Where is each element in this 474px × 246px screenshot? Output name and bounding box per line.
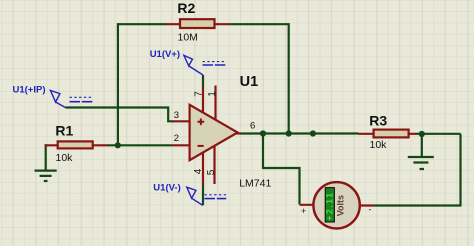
svg-text:R1: R1 bbox=[55, 122, 73, 138]
svg-text:+2.11: +2.11 bbox=[325, 192, 335, 221]
svg-text:3: 3 bbox=[174, 110, 179, 121]
svg-text:6: 6 bbox=[250, 121, 255, 132]
svg-text:7: 7 bbox=[193, 91, 204, 97]
svg-text:10k: 10k bbox=[56, 152, 74, 164]
svg-text:U1(+IP): U1(+IP) bbox=[13, 85, 46, 96]
svg-text:R2: R2 bbox=[177, 0, 195, 16]
svg-text:4: 4 bbox=[193, 168, 204, 174]
svg-text:-: - bbox=[369, 205, 372, 215]
svg-text:U1(V-): U1(V-) bbox=[153, 183, 180, 194]
svg-text:10M: 10M bbox=[178, 32, 198, 44]
svg-text:U1: U1 bbox=[240, 74, 259, 90]
svg-text:+: + bbox=[301, 206, 306, 216]
svg-text:U1(V+): U1(V+) bbox=[150, 49, 180, 60]
svg-text:1: 1 bbox=[207, 91, 218, 97]
svg-text:Volts: Volts bbox=[336, 195, 346, 216]
svg-text:10k: 10k bbox=[370, 139, 388, 151]
svg-text:R3: R3 bbox=[369, 113, 387, 129]
svg-text:2: 2 bbox=[174, 133, 179, 144]
svg-text:LM741: LM741 bbox=[239, 177, 271, 189]
svg-text:5: 5 bbox=[206, 169, 217, 175]
